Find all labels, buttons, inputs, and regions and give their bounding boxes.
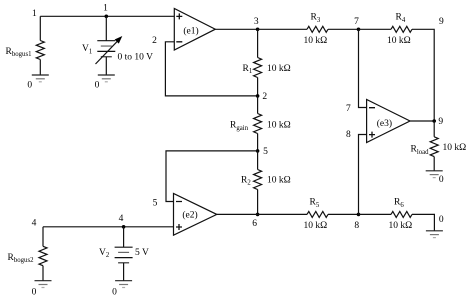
svg-text:(e2): (e2) bbox=[182, 209, 197, 220]
wire e2 feedback to node 5 bbox=[166, 151, 258, 202]
ground (Rbogus2) bbox=[35, 281, 52, 288]
ground (Rload) bbox=[426, 171, 443, 178]
svg-text:5: 5 bbox=[263, 147, 268, 157]
svg-text:R6: R6 bbox=[394, 198, 404, 209]
wire node 7 down to e3 inverting input bbox=[359, 29, 367, 107]
svg-text:0: 0 bbox=[439, 175, 444, 185]
svg-text:1: 1 bbox=[103, 4, 108, 14]
wire node 1 top horizontal bbox=[40, 15, 174, 17]
svg-text:Rgain: Rgain bbox=[230, 121, 249, 132]
wire e1 output to node 3 bbox=[215, 28, 257, 30]
svg-text:2: 2 bbox=[262, 92, 267, 102]
svg-text:8: 8 bbox=[346, 130, 351, 140]
resistor R5 bbox=[304, 198, 329, 231]
svg-text:V2: V2 bbox=[99, 248, 110, 259]
resistor R2 bbox=[241, 151, 291, 215]
node 8 junction dot bbox=[357, 213, 361, 217]
svg-text:V1: V1 bbox=[82, 44, 92, 55]
svg-text:Rbogus1: Rbogus1 bbox=[6, 47, 32, 58]
wire R5 to node 8 bbox=[328, 213, 359, 215]
resistor R3 bbox=[304, 13, 329, 46]
svg-text:9: 9 bbox=[439, 17, 444, 27]
svg-text:0: 0 bbox=[112, 287, 117, 297]
svg-text:4: 4 bbox=[32, 218, 37, 228]
voltage source V1 (variable, battery with arrow) bbox=[96, 16, 123, 75]
svg-text:10 kΩ: 10 kΩ bbox=[443, 143, 467, 153]
wire R6 to ground corner bbox=[412, 214, 434, 230]
svg-text:0 to 10 V: 0 to 10 V bbox=[118, 52, 154, 62]
svg-text:9: 9 bbox=[438, 117, 443, 127]
svg-text:10 kΩ: 10 kΩ bbox=[387, 36, 411, 46]
svg-text:3: 3 bbox=[254, 17, 259, 27]
svg-text:0: 0 bbox=[439, 215, 444, 225]
svg-text:6: 6 bbox=[252, 219, 257, 229]
ground (Rbogus1) bbox=[32, 75, 49, 82]
node 5 junction dot bbox=[256, 149, 260, 153]
resistor R1 bbox=[243, 29, 291, 96]
svg-text:4: 4 bbox=[119, 214, 124, 224]
op-amp U e3 bbox=[367, 100, 410, 143]
svg-text:0: 0 bbox=[95, 80, 100, 90]
svg-text:R3: R3 bbox=[311, 13, 321, 24]
svg-text:0: 0 bbox=[32, 287, 37, 297]
wire node 3 to R3 bbox=[258, 28, 307, 30]
wire node 6 to R5 bbox=[258, 213, 307, 215]
svg-text:(e1): (e1) bbox=[183, 25, 198, 36]
wire R3 to node 7 bbox=[328, 28, 359, 30]
svg-text:10 kΩ: 10 kΩ bbox=[267, 121, 291, 131]
svg-text:R1: R1 bbox=[243, 64, 253, 75]
svg-text:Rbogus2: Rbogus2 bbox=[8, 253, 35, 264]
node 4 junction dot bbox=[122, 225, 126, 229]
svg-text:0: 0 bbox=[27, 80, 32, 90]
svg-text:7: 7 bbox=[354, 17, 359, 27]
svg-text:5 V: 5 V bbox=[135, 248, 149, 258]
node 6 junction dot bbox=[256, 213, 260, 217]
svg-text:R4: R4 bbox=[396, 13, 406, 24]
wire node 8 up to e3 noninverting input bbox=[359, 135, 367, 215]
resistor Rbogus2 bbox=[8, 227, 48, 281]
node 7 junction dot bbox=[357, 28, 361, 32]
node 2 junction dot bbox=[256, 94, 260, 98]
svg-text:2: 2 bbox=[152, 36, 157, 46]
voltage source V2 (battery) bbox=[115, 227, 133, 281]
resistor Rload bbox=[411, 121, 467, 171]
wire node 7 to R4 bbox=[359, 28, 392, 30]
ground (V1) bbox=[98, 75, 115, 82]
resistor R6 bbox=[389, 198, 413, 231]
ground (R6) bbox=[426, 231, 443, 238]
svg-text:8: 8 bbox=[354, 221, 359, 231]
svg-text:10 kΩ: 10 kΩ bbox=[389, 221, 413, 231]
node 3 junction dot bbox=[256, 28, 260, 32]
resistor R4 bbox=[387, 13, 412, 46]
svg-text:10 kΩ: 10 kΩ bbox=[304, 221, 328, 231]
svg-text:(e3): (e3) bbox=[377, 118, 392, 129]
svg-text:10 kΩ: 10 kΩ bbox=[267, 176, 291, 186]
wire R4 to node 9 (right vertical) bbox=[412, 29, 434, 121]
resistor Rbogus1 bbox=[6, 16, 45, 75]
svg-text:R5: R5 bbox=[310, 198, 320, 209]
svg-text:7: 7 bbox=[346, 104, 351, 114]
svg-text:1: 1 bbox=[32, 9, 37, 19]
svg-text:Rload: Rload bbox=[411, 145, 430, 156]
wire node 4 horizontal to e2 noninverting input bbox=[43, 226, 174, 228]
resistor Rgain bbox=[230, 96, 291, 151]
op-amp U e1 bbox=[174, 9, 215, 51]
svg-text:5: 5 bbox=[153, 198, 158, 208]
svg-text:10 kΩ: 10 kΩ bbox=[267, 64, 291, 74]
op-amp U e2 bbox=[174, 194, 217, 236]
node 1 junction dot bbox=[105, 14, 109, 18]
ground (V2) bbox=[115, 281, 132, 288]
wire e1 feedback to node 2 bbox=[165, 42, 257, 96]
wire e2 output to node 6 bbox=[217, 213, 258, 215]
node 9 junction dot bbox=[432, 119, 436, 123]
svg-text:10 kΩ: 10 kΩ bbox=[304, 36, 328, 46]
wire node 8 to R6 bbox=[359, 213, 392, 215]
svg-text:R2: R2 bbox=[241, 176, 251, 187]
wire e3 output to node 9 bbox=[410, 120, 434, 122]
